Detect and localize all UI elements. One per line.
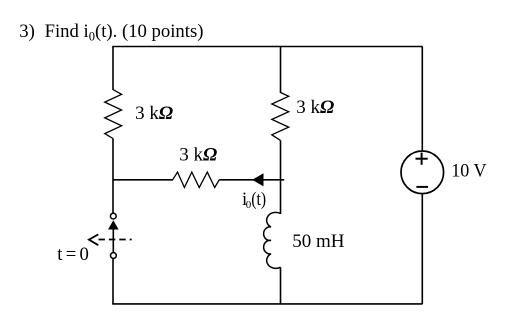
svg-text:3 kΩ: 3 kΩ bbox=[296, 97, 334, 118]
svg-text:Find i0(t). (10 points): Find i0(t). (10 points) bbox=[45, 21, 204, 44]
wire right lower (V1 to bottom-right corner) bbox=[421, 194, 423, 304]
resistor R3 (horizontal 3 kOhm) bbox=[173, 172, 220, 187]
wire bottom bbox=[112, 303, 422, 305]
wire top bbox=[112, 46, 422, 48]
resistor R1 (left 3 kOhm) bbox=[105, 90, 122, 139]
svg-text:3 kΩ: 3 kΩ bbox=[135, 103, 173, 124]
resistor R2 (middle 3 kOhm) bbox=[272, 93, 289, 141]
inductor L1 (50 mH) bbox=[264, 212, 281, 268]
wire left upper (top-left corner to R1) bbox=[112, 47, 114, 91]
switch SW1 blade arrow bbox=[108, 220, 119, 229]
wire R3 to middle branch bbox=[219, 179, 284, 181]
svg-text:3): 3) bbox=[19, 21, 35, 42]
wire middle (R2 to L1) bbox=[280, 140, 282, 214]
svg-text:(t): (t) bbox=[251, 189, 266, 210]
svg-text:10 V: 10 V bbox=[451, 160, 486, 181]
svg-text:50 mH: 50 mH bbox=[292, 231, 345, 252]
wire right upper (top-right corner to V1) bbox=[421, 47, 423, 152]
svg-text:3 kΩ: 3 kΩ bbox=[179, 145, 217, 166]
voltage source V1 (10 V) bbox=[401, 151, 444, 194]
svg-text:t = 0: t = 0 bbox=[57, 244, 89, 265]
switch SW1 motion arrow (dashed) bbox=[99, 239, 132, 241]
wire middle upper (top wire to R2) bbox=[280, 47, 282, 94]
current arrow i0(t) bbox=[252, 173, 263, 186]
wire middle lower (L1 to bottom wire) bbox=[280, 267, 282, 304]
wire left lower (switch to bottom-left corner) bbox=[112, 258, 114, 304]
wire left middle (R1 to switch) bbox=[112, 139, 114, 214]
switch SW1 bottom terminal bbox=[111, 253, 117, 259]
node A junction wire (left node to R3) bbox=[113, 179, 173, 181]
switch SW1 top terminal bbox=[110, 213, 116, 219]
